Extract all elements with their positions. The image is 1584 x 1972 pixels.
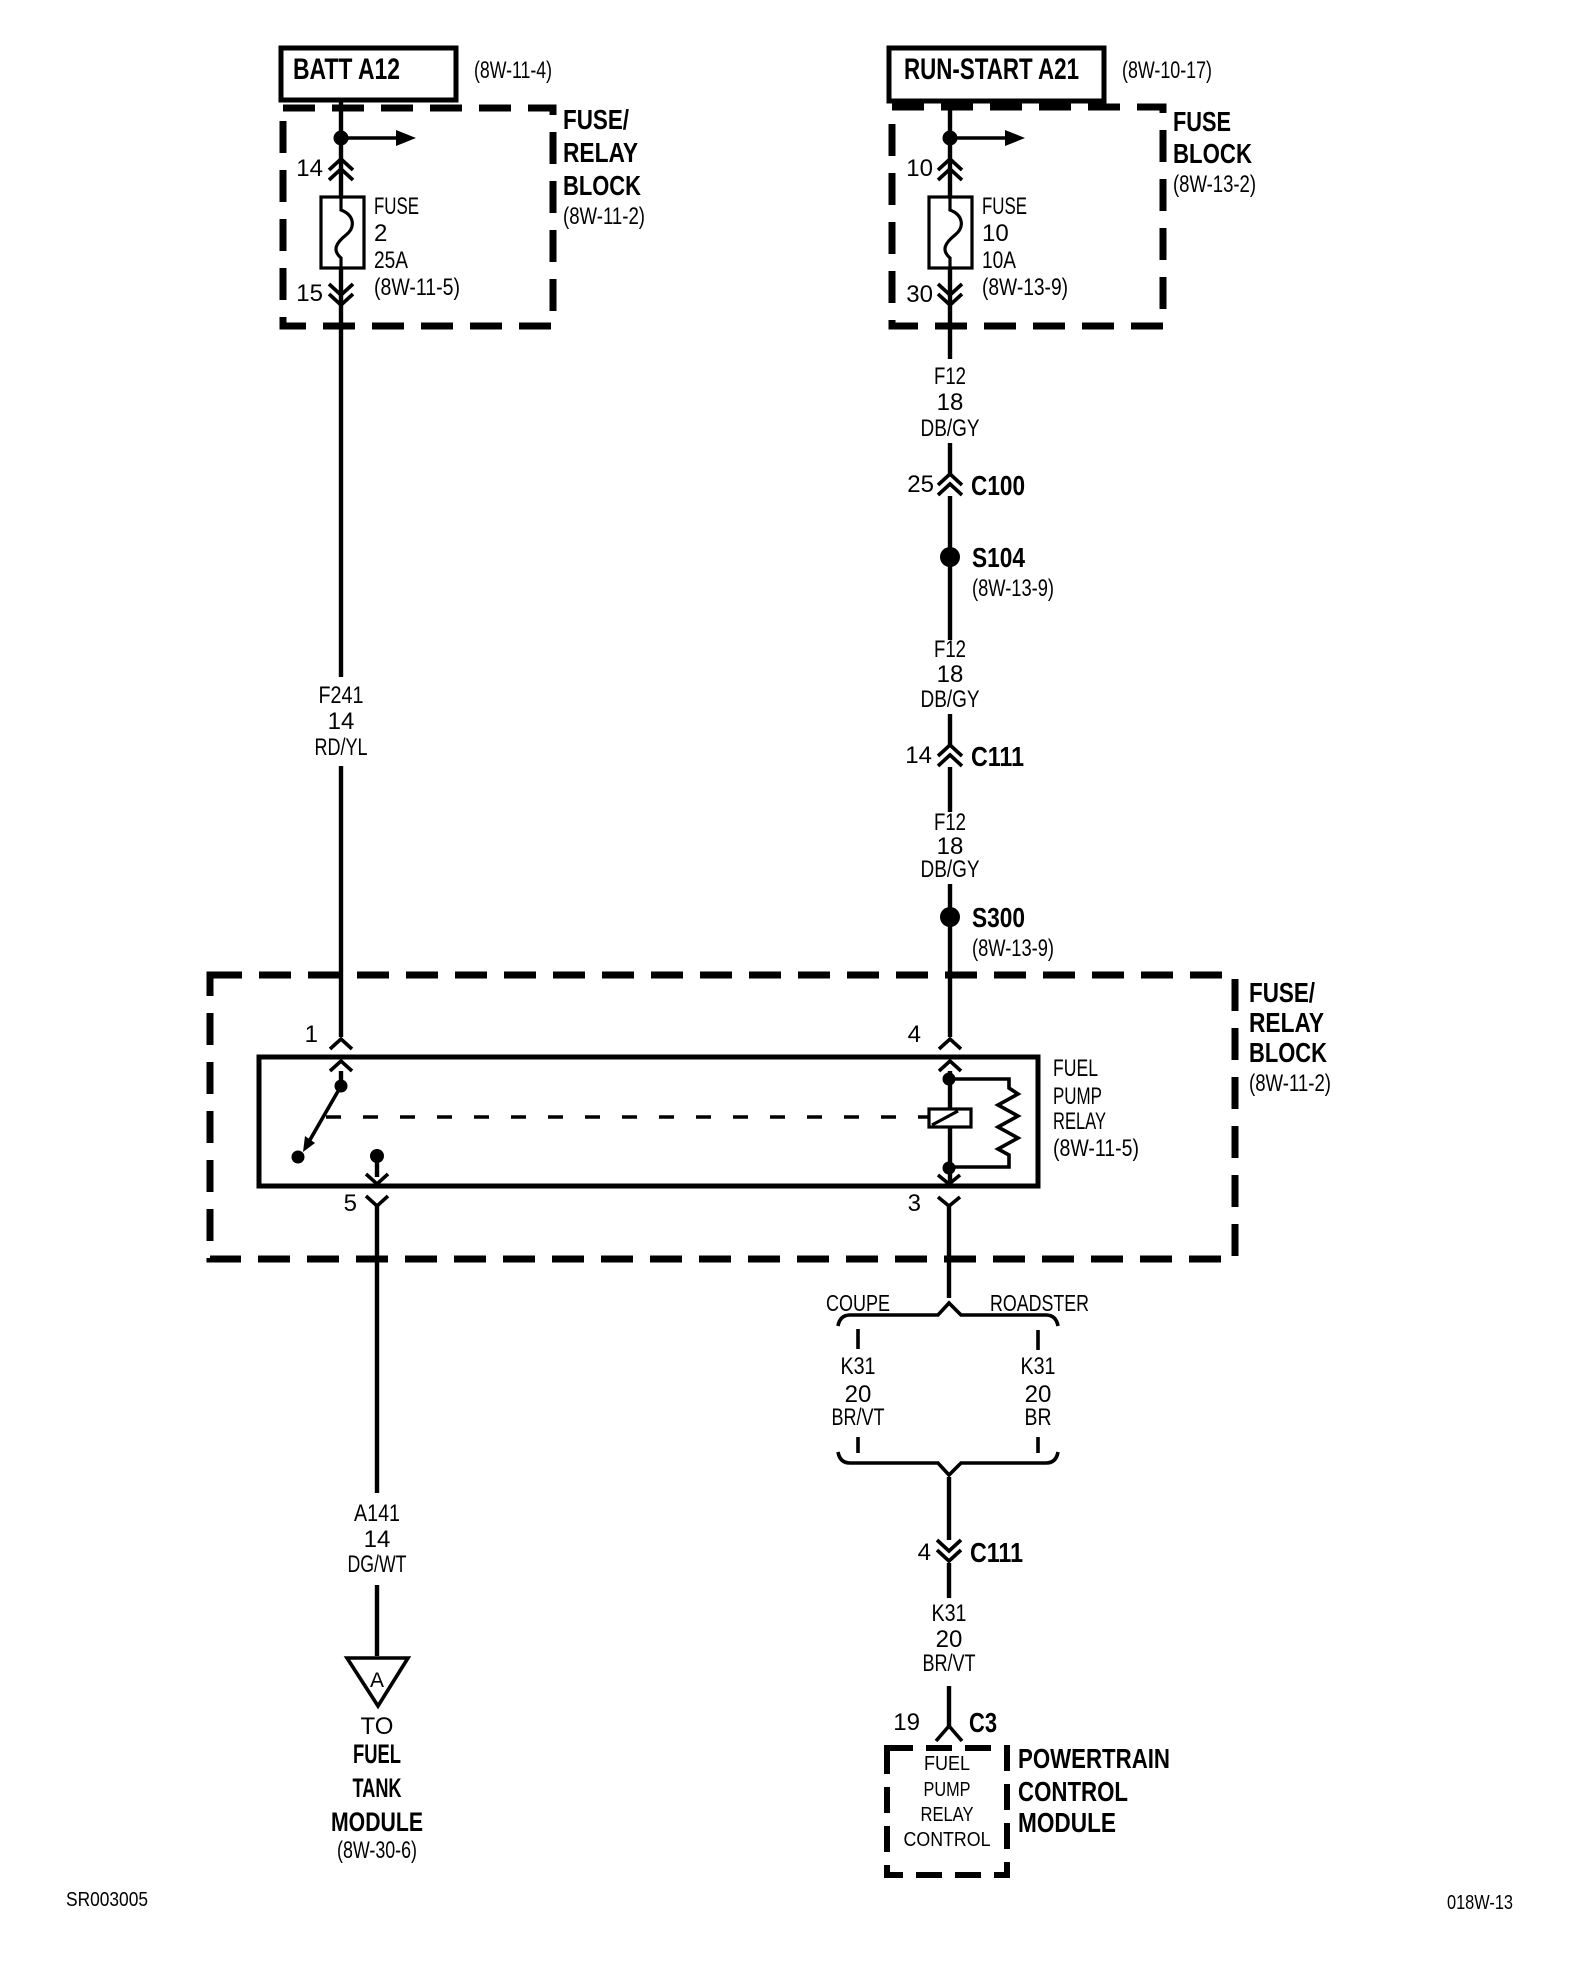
svg-text:18: 18 (937, 661, 964, 688)
svg-text:TANK: TANK (353, 1773, 402, 1803)
svg-text:K31: K31 (841, 1353, 876, 1380)
wire to PCM (947, 1686, 951, 1726)
relay pin 3 (908, 1175, 960, 1217)
svg-text:(8W-11-5): (8W-11-5) (1053, 1135, 1139, 1162)
svg-text:5: 5 (344, 1190, 357, 1217)
node junction dot (right) (943, 131, 958, 146)
splice S104 (940, 542, 1054, 602)
svg-text:RUN-START A21: RUN-START A21 (904, 53, 1079, 86)
node RUN-START A21 (889, 48, 1212, 101)
svg-text:14: 14 (296, 155, 323, 182)
svg-text:FUEL: FUEL (1053, 1055, 1098, 1082)
svg-text:F12: F12 (934, 636, 966, 663)
svg-text:C111: C111 (970, 1537, 1023, 1568)
svg-text:FUSE: FUSE (374, 193, 419, 220)
svg-text:10A: 10A (982, 247, 1016, 274)
svg-text:DB/GY: DB/GY (921, 686, 980, 713)
wire arrow to other circuits (left) (341, 136, 397, 140)
svg-text:14: 14 (364, 1526, 391, 1553)
svg-text:4: 4 (918, 1539, 931, 1566)
svg-text:4: 4 (908, 1021, 921, 1048)
splice S300 (940, 902, 1054, 962)
svg-text:018W-13: 018W-13 (1447, 1892, 1513, 1914)
svg-text:C111: C111 (971, 741, 1024, 772)
node coil bottom junction (943, 1162, 956, 1175)
connector C100 pin 25 (907, 470, 1025, 501)
svg-text:MODULE: MODULE (331, 1807, 423, 1837)
svg-text:(8W-11-4): (8W-11-4) (474, 57, 552, 84)
powertrain control module dashed box (887, 1748, 1007, 1875)
relay coil U1 (929, 1071, 971, 1184)
wire label A141 14 DG/WT (348, 1500, 407, 1578)
svg-text:14: 14 (328, 708, 355, 735)
wire split brace (top) (838, 1303, 1058, 1326)
svg-text:K31: K31 (932, 1600, 967, 1627)
svg-text:BLOCK: BLOCK (1249, 1037, 1327, 1068)
svg-text:F12: F12 (934, 809, 966, 836)
node BATT A12 (281, 48, 552, 100)
fuse F2 (321, 193, 460, 301)
svg-text:TO: TO (361, 1713, 394, 1740)
svg-text:S104: S104 (972, 542, 1025, 573)
svg-text:COUPE: COUPE (826, 1290, 890, 1316)
svg-text:RELAY: RELAY (1249, 1007, 1324, 1038)
svg-text:F241: F241 (319, 682, 364, 709)
wire merge brace (bottom) (838, 1452, 1058, 1475)
wire F241 (339, 268, 343, 677)
wire (948, 496, 952, 640)
svg-text:(8W-30-6): (8W-30-6) (337, 1837, 417, 1864)
wire F12 segment 1 (948, 268, 952, 359)
resistor (relay suppression) (949, 1079, 1018, 1167)
svg-text:PUMP: PUMP (924, 1779, 971, 1801)
relay pin 1 (305, 1021, 352, 1071)
svg-text:(8W-11-5): (8W-11-5) (374, 274, 460, 301)
fuel pump relay solid box (259, 1057, 1038, 1186)
svg-text:15: 15 (296, 280, 323, 307)
svg-text:BR: BR (1025, 1404, 1052, 1431)
svg-text:14: 14 (905, 742, 932, 769)
svg-text:RD/YL: RD/YL (315, 734, 368, 761)
svg-text:A: A (370, 1669, 384, 1692)
svg-text:F12: F12 (934, 363, 966, 390)
relay pin 5 (344, 1190, 388, 1217)
wire (948, 714, 952, 745)
svg-text:BATT A12: BATT A12 (293, 53, 400, 86)
wire label K31 20 BR (roadster) (1021, 1353, 1056, 1431)
label TO FUEL TANK MODULE (331, 1713, 423, 1864)
svg-text:FUSE/: FUSE/ (1249, 977, 1315, 1008)
fuse/relay block (middle) dashed box (210, 975, 1331, 1259)
svg-text:A141: A141 (354, 1500, 400, 1527)
svg-text:FUEL: FUEL (353, 1739, 401, 1769)
svg-text:(8W-13-9): (8W-13-9) (982, 274, 1068, 301)
wire from pin 5 down (375, 1206, 379, 1493)
wire from pin 3 down (947, 1206, 951, 1298)
svg-text:(8W-13-9): (8W-13-9) (972, 575, 1054, 602)
svg-text:MODULE: MODULE (1018, 1807, 1116, 1838)
connector C111 pin 14 (905, 741, 1024, 772)
svg-text:DG/WT: DG/WT (348, 1551, 407, 1578)
svg-text:(8W-13-9): (8W-13-9) (972, 935, 1054, 962)
svg-text:FUSE/: FUSE/ (563, 104, 629, 135)
svg-text:K31: K31 (1021, 1353, 1056, 1380)
wire (948, 884, 952, 1037)
svg-text:30: 30 (906, 281, 933, 308)
svg-text:1: 1 (305, 1021, 318, 1048)
wire from BATT A12 down (339, 100, 343, 197)
wire label K31 20 BR/VT (923, 1600, 976, 1677)
node junction dot (left) (334, 131, 349, 146)
svg-text:20: 20 (936, 1626, 963, 1653)
svg-text:(8W-11-2): (8W-11-2) (1249, 1070, 1331, 1097)
svg-text:RELAY: RELAY (1053, 1108, 1106, 1135)
wire down to C111 (947, 1477, 951, 1540)
svg-text:POWERTRAIN: POWERTRAIN (1018, 1743, 1170, 1774)
svg-text:RELAY: RELAY (563, 137, 638, 168)
wire coupe branch (856, 1329, 860, 1349)
wire (948, 767, 952, 812)
wire roadster branch (1036, 1330, 1040, 1350)
wire roadster stub (1036, 1437, 1040, 1453)
wire label F241 14 RD/YL (315, 682, 368, 761)
relay switch contact (pin 1 side) (292, 1071, 348, 1164)
svg-text:RELAY: RELAY (921, 1804, 974, 1826)
svg-text:(8W-10-17): (8W-10-17) (1122, 57, 1212, 84)
label POWERTRAIN CONTROL MODULE (1018, 1743, 1170, 1838)
svg-text:(8W-11-2): (8W-11-2) (563, 203, 645, 230)
wire (947, 1563, 951, 1598)
wire to relay pin 1 (339, 766, 343, 1037)
wire label F12 18 DB/GY (2) (921, 636, 980, 713)
svg-text:FUEL: FUEL (924, 1753, 970, 1775)
wire arrow to other circuits (right) (950, 136, 1006, 140)
svg-text:DB/GY: DB/GY (921, 415, 980, 442)
fuse/relay block (top left) dashed box (283, 104, 645, 326)
svg-text:BR/VT: BR/VT (832, 1404, 885, 1431)
relay label FUEL PUMP RELAY (8W-11-5) (1053, 1055, 1139, 1162)
svg-text:10: 10 (906, 155, 933, 182)
svg-text:FUSE: FUSE (1173, 106, 1231, 137)
svg-text:3: 3 (908, 1190, 921, 1217)
svg-text:10: 10 (982, 220, 1009, 247)
svg-text:C3: C3 (969, 1707, 997, 1738)
svg-text:ROADSTER: ROADSTER (990, 1290, 1089, 1316)
off-page connector A (triangle) (347, 1658, 408, 1706)
svg-text:19: 19 (893, 1709, 920, 1736)
connector C111 pin 4 (918, 1537, 1023, 1568)
wire coupe stub (856, 1437, 860, 1453)
relay pin 4 (908, 1021, 961, 1071)
svg-text:BLOCK: BLOCK (1173, 138, 1252, 169)
relay armature dashed linkage (326, 1115, 928, 1118)
svg-text:S300: S300 (972, 902, 1025, 933)
wire label F12 18 DB/GY (1) (921, 363, 980, 442)
svg-text:C100: C100 (971, 470, 1025, 501)
svg-text:FUSE: FUSE (982, 193, 1027, 220)
svg-text:(8W-13-2): (8W-13-2) (1173, 171, 1256, 198)
svg-text:18: 18 (937, 389, 964, 416)
wire label K31 20 BR/VT (coupe) (832, 1353, 885, 1431)
svg-text:DB/GY: DB/GY (921, 856, 980, 883)
svg-text:25: 25 (907, 471, 934, 498)
fuse block (top right) dashed box (892, 106, 1256, 326)
svg-text:PUMP: PUMP (1053, 1083, 1102, 1110)
svg-text:CONTROL: CONTROL (1018, 1776, 1128, 1807)
connector C3 pin 19 (893, 1707, 997, 1741)
wire (948, 443, 952, 474)
svg-text:2: 2 (374, 220, 387, 247)
relay pin 5 contact (366, 1149, 388, 1184)
wire from RUN-START A21 down (948, 101, 952, 197)
wire to off-page connector A (375, 1585, 379, 1656)
svg-text:SR003005: SR003005 (66, 1889, 148, 1911)
svg-text:BR/VT: BR/VT (923, 1650, 976, 1677)
node coil top junction (943, 1073, 956, 1086)
svg-text:BLOCK: BLOCK (563, 170, 641, 201)
svg-text:25A: 25A (374, 247, 408, 274)
fuse F10 (929, 193, 1068, 301)
wire label F12 18 DB/GY (3) (921, 809, 980, 883)
svg-text:CONTROL: CONTROL (904, 1829, 991, 1851)
